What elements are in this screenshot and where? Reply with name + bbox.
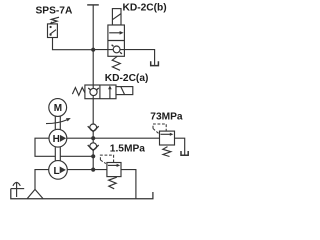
pressure switch SPS-7A bbox=[48, 17, 60, 37]
spring KD-2C(a) bbox=[72, 88, 85, 96]
svg-text:SPS-7A: SPS-7A bbox=[36, 5, 73, 16]
breather bbox=[13, 182, 20, 197]
node B bbox=[91, 154, 95, 158]
check ball KD-2C(a) bbox=[88, 88, 99, 96]
solenoid actuator KD-2C(b) bbox=[112, 9, 121, 25]
solenoid actuator KD-2C(a) bbox=[116, 87, 133, 95]
svg-text:1.5MPa: 1.5MPa bbox=[110, 143, 145, 154]
tank symbol KD-2C(b) drain bbox=[151, 61, 159, 65]
strainer bbox=[27, 189, 43, 198]
wire 1.5MPa drain bbox=[121, 170, 136, 199]
check valve CV1 bbox=[88, 124, 99, 132]
svg-text:H: H bbox=[53, 134, 60, 145]
wire SPS-7A stem bbox=[53, 38, 94, 50]
node C bbox=[91, 168, 95, 172]
check valve CV2 bbox=[88, 143, 99, 151]
pump L bbox=[49, 161, 68, 180]
wire main riser through KD-2C(a) to column bbox=[92, 85, 94, 170]
valve KD-2C(b) body bbox=[108, 25, 125, 56]
wire L discharge bbox=[67, 169, 107, 171]
pump H bbox=[49, 129, 67, 147]
spring KD-2C(b) bbox=[112, 56, 120, 70]
tank bottom bbox=[11, 189, 153, 199]
svg-text:73MPa: 73MPa bbox=[150, 112, 183, 123]
wire KD-2C(b) drain bbox=[124, 50, 154, 65]
electric motor M bbox=[49, 99, 67, 117]
valve KD-2C(a) body bbox=[85, 85, 116, 99]
drive shaft M-H bbox=[55, 116, 60, 129]
drive shaft H-L bbox=[55, 147, 60, 161]
svg-text:M: M bbox=[54, 103, 62, 114]
wire main riser with T port to jack bbox=[87, 4, 99, 6]
node main junction bbox=[91, 48, 95, 52]
wire L suction bbox=[35, 170, 49, 190]
svg-text:KD-2C(a): KD-2C(a) bbox=[105, 73, 149, 84]
relief valve 1.5MPa bbox=[100, 155, 121, 189]
wire H suction loop bbox=[35, 138, 93, 156]
tank symbol 73MPa drain bbox=[181, 151, 188, 155]
svg-text:L: L bbox=[53, 166, 59, 177]
wire junction to KD-2C(b) bbox=[93, 49, 124, 51]
svg-text:KD-2C(b): KD-2C(b) bbox=[123, 2, 167, 13]
relief valve 73MPa bbox=[153, 124, 175, 157]
rotation arrow bbox=[46, 118, 71, 124]
wire H pump discharge line to relief bbox=[67, 137, 160, 139]
check ball KD-2C(b) bbox=[112, 45, 122, 54]
node A bbox=[91, 136, 95, 140]
wire 73MPa drain bbox=[175, 138, 185, 155]
